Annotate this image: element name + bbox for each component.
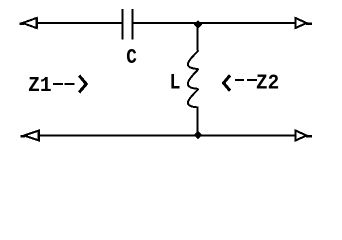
svg-text:C: C [126, 46, 137, 70]
node bottom junction dot [194, 131, 203, 140]
capacitor C plates [122, 9, 134, 40]
svg-text:L: L [169, 70, 180, 95]
wire bottom rail [39, 135, 297, 137]
wire vertical upper (dot to inductor) [197, 23, 199, 50]
svg-text:Z1: Z1 [28, 75, 51, 98]
node label Z1 (impedance looking right) [28, 75, 86, 98]
node top junction dot [194, 20, 203, 28]
arrow bottom-left [20, 130, 39, 141]
wire top-mid (capacitor to arrow right) [134, 22, 296, 24]
wire top-left (arrow back to capacitor) [37, 22, 123, 24]
inductor L coil [188, 50, 199, 107]
arrow top-right [296, 18, 313, 29]
wire vertical lower (inductor to bottom rail) [197, 107, 199, 136]
svg-text:Z2: Z2 [256, 72, 279, 95]
arrow top-left [20, 18, 37, 29]
node label Z2 (impedance looking left) [224, 72, 280, 95]
arrow bottom-right [296, 130, 313, 141]
